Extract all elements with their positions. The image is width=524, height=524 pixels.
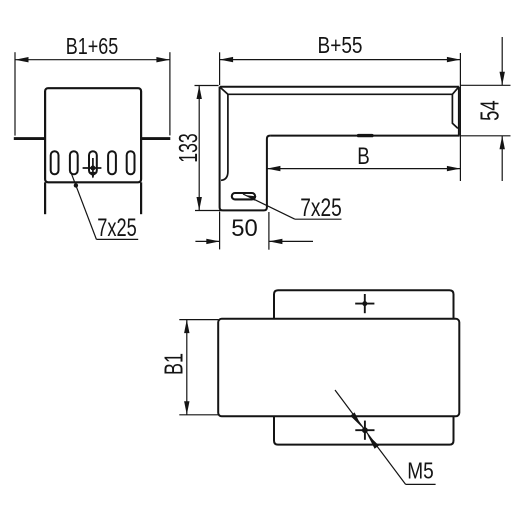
profile left outer edge and foot [220,87,271,211]
front view body (rounded box) [45,88,141,182]
slot 1 [51,151,59,174]
svg-text:B1+65: B1+65 [66,33,119,59]
svg-text:54: 54 [475,100,505,121]
back plate upper part [274,290,454,319]
slot 5 [127,151,135,174]
right flange [142,137,170,140]
inner right edge with curl [452,94,458,128]
slot 2 [70,151,78,174]
upper hole cross [355,294,374,313]
leader 7x25 (side view) [243,194,342,219]
middle slot position cross [83,158,102,178]
back plate lower part [274,416,454,444]
svg-text:50: 50 [231,215,258,242]
profile outer top edge [220,86,459,88]
svg-text:B1: B1 [159,353,189,375]
left leg [44,182,46,214]
dimension 50 [195,212,313,250]
dimension 54 [461,37,511,181]
label B1 [159,353,189,375]
dimension B1+65 [15,52,170,135]
svg-text:B: B [357,143,370,170]
svg-text:133: 133 [173,133,203,163]
svg-text:B+55: B+55 [318,32,363,58]
dimension 133 [195,86,223,211]
right leg [140,182,142,214]
svg-text:7x25: 7x25 [300,194,342,222]
dimension B+55 [220,52,461,181]
slot 4 [108,151,116,174]
profile right outer edge [458,87,460,136]
dimension B1 [179,320,218,415]
side slot 7x25 [232,193,255,199]
leader 7x25 (front view) [71,172,138,239]
slot 3 (middle) [89,151,97,174]
label 54 [475,100,505,121]
svg-text:7x25: 7x25 [97,214,137,242]
inner left edge with curl [221,94,228,180]
svg-text:M5: M5 [407,457,434,483]
leader M5 [335,390,436,484]
lower hole cross [355,421,374,440]
inner top edge with chamfers [221,87,459,94]
label 133 [173,133,203,163]
top view body [218,319,459,417]
dimension B [267,166,461,171]
left flange [14,137,44,140]
stud dash on web [359,134,373,137]
profile web bottom edge [270,135,460,137]
